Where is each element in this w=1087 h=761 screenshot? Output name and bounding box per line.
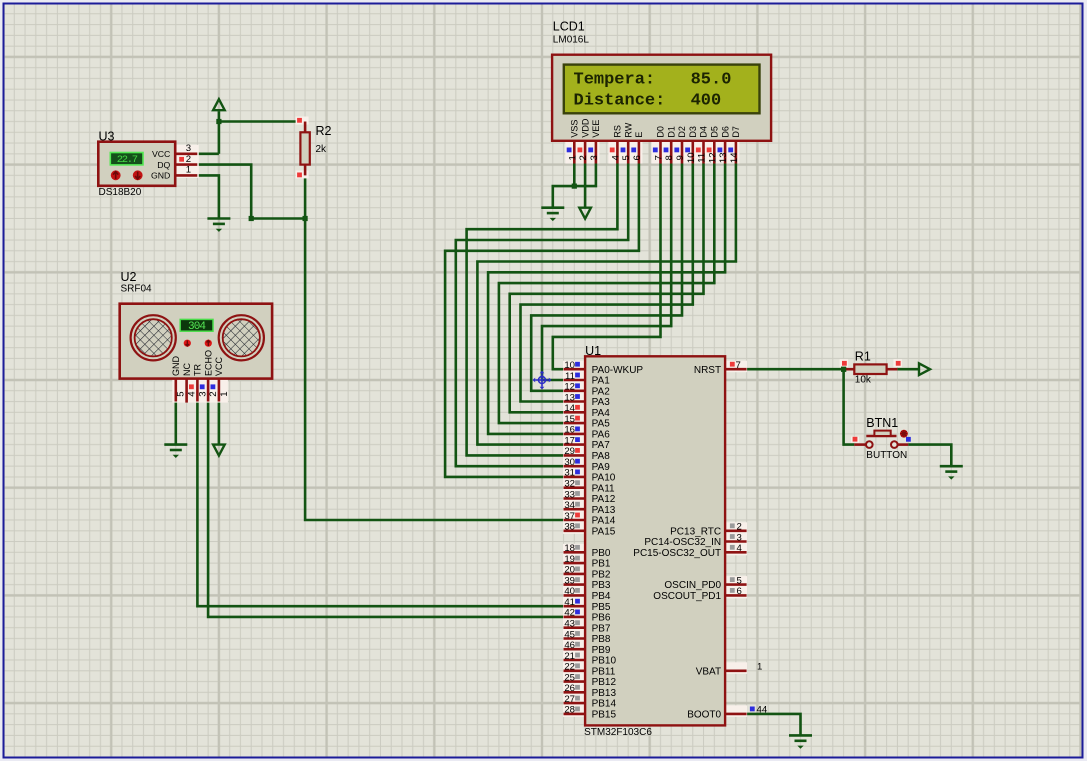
U2 distance readout display xyxy=(180,319,213,331)
junction VSS/VEE xyxy=(572,184,577,189)
wire BOOT0: U1 pin44 to ground xyxy=(747,714,801,736)
svg-text:PA5: PA5 xyxy=(592,419,611,430)
svg-text:U3: U3 xyxy=(99,130,115,144)
svg-text:PB4: PB4 xyxy=(592,591,611,602)
svg-text:1: 1 xyxy=(567,155,578,160)
svg-text:32: 32 xyxy=(564,479,575,490)
svg-text:8: 8 xyxy=(664,155,675,160)
U2 pin state squares xyxy=(189,384,194,389)
U2 pin names xyxy=(171,350,224,376)
svg-text:7: 7 xyxy=(654,155,665,160)
svg-text:10: 10 xyxy=(686,152,697,163)
svg-text:3: 3 xyxy=(737,532,742,543)
wire DQ node -> U1 PA14 xyxy=(305,219,563,521)
svg-text:SRF04: SRF04 xyxy=(121,284,153,295)
svg-text:1: 1 xyxy=(757,662,762,673)
ground near BTN1 xyxy=(940,466,963,479)
wire power rail down to U3 VCC xyxy=(218,111,221,154)
U1 pin numbers xyxy=(564,360,768,716)
svg-text:Distance:: Distance: xyxy=(574,92,666,111)
junction VCC rail xyxy=(216,119,221,124)
svg-text:13: 13 xyxy=(564,392,575,403)
svg-text:PB14: PB14 xyxy=(592,699,617,710)
wire VCC rail to R2 top xyxy=(219,120,305,123)
wire R2 bottom to DQ node xyxy=(304,175,307,218)
svg-text:42: 42 xyxy=(564,608,575,619)
wire RW: LCD1 pin5 -> U1 PA9 xyxy=(456,164,628,467)
svg-text:PB1: PB1 xyxy=(592,559,611,570)
svg-text:BUTTON: BUTTON xyxy=(866,450,907,461)
svg-text:PB2: PB2 xyxy=(592,570,611,581)
wire D1: LCD1 pin8 -> U1 PA1 xyxy=(542,164,671,381)
svg-text:41: 41 xyxy=(564,597,575,608)
svg-text:PA6: PA6 xyxy=(592,430,611,441)
svg-text:5: 5 xyxy=(621,155,632,160)
wire D5: LCD1 pin12 -> U1 PA5 xyxy=(499,164,714,424)
ground near U3 xyxy=(207,219,230,232)
svg-text:11: 11 xyxy=(565,371,575,382)
svg-text:11: 11 xyxy=(697,153,708,163)
svg-text:304: 304 xyxy=(188,321,206,333)
wire D4: LCD1 pin11 -> U1 PA4 xyxy=(510,164,704,413)
svg-text:PA13: PA13 xyxy=(592,505,616,516)
svg-text:GND: GND xyxy=(171,356,181,377)
svg-text:PB5: PB5 xyxy=(592,602,611,613)
svg-text:PA10: PA10 xyxy=(592,473,616,484)
U3 pin names xyxy=(151,149,171,181)
temperature sensor U3 DS18B20 xyxy=(98,130,199,198)
power VDD down-arrow xyxy=(579,208,591,219)
svg-text:OSCIN_PD0: OSCIN_PD0 xyxy=(664,580,721,591)
LCD1 pin numbers xyxy=(567,152,740,163)
svg-text:16: 16 xyxy=(564,425,575,436)
U3 pin state square (DQ) xyxy=(179,157,184,162)
svg-text:PA3: PA3 xyxy=(592,397,611,408)
wire VSS: LCD1 pin1 down xyxy=(573,164,576,187)
wire D7: LCD1 pin14 -> U1 PA7 xyxy=(477,164,736,445)
svg-text:28: 28 xyxy=(564,705,575,716)
svg-text:44: 44 xyxy=(757,705,768,716)
svg-text:31: 31 xyxy=(564,468,575,479)
svg-text:PB8: PB8 xyxy=(592,634,611,645)
power VCC down-arrow near U2 xyxy=(213,445,225,456)
LCD1 screen text xyxy=(574,70,732,110)
BTN1 cap xyxy=(874,431,890,436)
svg-text:26: 26 xyxy=(564,683,575,694)
svg-text:R1: R1 xyxy=(855,350,871,364)
svg-text:PA4: PA4 xyxy=(592,408,611,419)
svg-text:PA9: PA9 xyxy=(592,462,611,473)
BTN1 bar xyxy=(866,435,896,437)
svg-text:D2: D2 xyxy=(677,126,687,138)
svg-text:9: 9 xyxy=(675,155,686,160)
svg-text:VEE: VEE xyxy=(591,120,601,138)
microcontroller U1 STM32F103C6 xyxy=(563,344,768,738)
svg-text:PB3: PB3 xyxy=(592,580,611,591)
wire D3: LCD1 pin10 -> U1 PA3 xyxy=(521,164,693,402)
wire DQ: U3 pin2 to R2 bottom node xyxy=(197,165,305,219)
wire VSS to ground xyxy=(553,186,575,208)
U2 small indicators xyxy=(184,340,191,347)
svg-text:PB9: PB9 xyxy=(592,645,611,656)
ground near BOOT0 xyxy=(789,735,812,748)
svg-text:DS18B20: DS18B20 xyxy=(99,187,142,198)
svg-text:10: 10 xyxy=(564,360,575,371)
svg-text:GND: GND xyxy=(151,171,170,181)
svg-text:D0: D0 xyxy=(656,126,666,138)
svg-text:20: 20 xyxy=(564,565,575,576)
svg-text:34: 34 xyxy=(564,500,575,511)
svg-text:BTN1: BTN1 xyxy=(866,416,898,430)
wire RS: LCD1 pin4 -> U1 PA8 xyxy=(467,164,618,456)
svg-text:4: 4 xyxy=(187,391,198,397)
svg-text:D7: D7 xyxy=(731,126,741,138)
svg-text:PB0: PB0 xyxy=(592,548,611,559)
LCD1 pin state squares xyxy=(567,148,572,153)
svg-text:7: 7 xyxy=(736,360,741,371)
svg-text:BOOT0: BOOT0 xyxy=(687,710,721,721)
svg-text:PB10: PB10 xyxy=(592,656,617,667)
svg-text:14: 14 xyxy=(564,403,575,414)
svg-text:PA1: PA1 xyxy=(592,376,611,387)
wire TR: U2 pin3 -> U1 PB5 xyxy=(197,402,563,607)
wire GND: U3 pin1 to ground xyxy=(197,175,219,218)
svg-text:21: 21 xyxy=(564,651,575,662)
svg-text:PB12: PB12 xyxy=(592,677,617,688)
svg-text:PA8: PA8 xyxy=(592,451,611,462)
svg-text:PA7: PA7 xyxy=(592,440,611,451)
LCD1 screen xyxy=(564,65,760,114)
wire junction down to BTN1 xyxy=(844,369,855,444)
resistor R2 xyxy=(296,117,332,179)
svg-text:D1: D1 xyxy=(666,126,676,138)
svg-text:6: 6 xyxy=(737,586,742,597)
svg-text:5: 5 xyxy=(737,575,742,586)
svg-text:6: 6 xyxy=(632,155,643,160)
svg-text:2: 2 xyxy=(578,155,589,160)
svg-text:VBAT: VBAT xyxy=(696,666,721,677)
svg-text:12: 12 xyxy=(564,382,575,393)
svg-text:30: 30 xyxy=(564,457,575,468)
svg-text:VSS: VSS xyxy=(570,120,580,138)
U3 pin numbers xyxy=(186,143,191,176)
svg-text:18: 18 xyxy=(564,543,575,554)
svg-text:PC14-OSC32_IN: PC14-OSC32_IN xyxy=(644,537,721,548)
svg-text:TR: TR xyxy=(193,364,203,376)
svg-text:3: 3 xyxy=(589,155,600,160)
svg-text:STM32F103C6: STM32F103C6 xyxy=(584,727,652,738)
power up-arrow (VCC rail) xyxy=(213,99,225,110)
svg-text:PB7: PB7 xyxy=(592,623,611,634)
svg-text:2: 2 xyxy=(737,522,742,533)
svg-text:PB11: PB11 xyxy=(592,666,616,677)
svg-text:PC13_RTC: PC13_RTC xyxy=(670,526,721,537)
svg-text:NC: NC xyxy=(182,363,192,376)
svg-text:2k: 2k xyxy=(316,144,328,155)
wire VCC: U2 pin1 to power xyxy=(218,402,221,445)
svg-text:Tempera:: Tempera: xyxy=(574,70,656,89)
svg-text:VDD: VDD xyxy=(580,118,590,138)
wire D6: LCD1 pin13 -> U1 PA6 xyxy=(488,164,725,434)
svg-text:2: 2 xyxy=(186,154,191,165)
svg-text:U2: U2 xyxy=(121,270,137,284)
svg-text:22.7: 22.7 xyxy=(117,154,138,166)
wire VCC: U3 pin3 xyxy=(197,153,219,156)
svg-text:33: 33 xyxy=(564,489,575,500)
svg-text:NRST: NRST xyxy=(694,365,721,376)
svg-text:25: 25 xyxy=(564,672,575,683)
BTN1 actuator xyxy=(900,430,908,438)
origin crosshair marker xyxy=(533,371,552,390)
svg-text:1: 1 xyxy=(219,391,230,396)
svg-text:D3: D3 xyxy=(688,126,698,138)
junction DQ/R2 xyxy=(303,216,308,221)
LCD display LCD1 LM016L xyxy=(552,20,771,164)
wire BTN1 to ground xyxy=(908,445,951,467)
svg-text:LM016L: LM016L xyxy=(553,34,590,45)
wire D0: LCD1 pin7 -> U1 PA0 xyxy=(553,164,661,370)
svg-text:13: 13 xyxy=(718,152,729,163)
resistor R1 xyxy=(840,350,902,386)
svg-text:D5: D5 xyxy=(710,126,720,138)
svg-text:VCC: VCC xyxy=(214,356,224,376)
svg-text:38: 38 xyxy=(564,522,575,533)
svg-text:E: E xyxy=(634,132,644,138)
svg-text:400: 400 xyxy=(691,92,722,111)
R1 terminal state squares xyxy=(842,361,847,366)
wire E: LCD1 pin6 -> U1 PA10 xyxy=(445,164,639,477)
svg-text:10k: 10k xyxy=(855,374,872,385)
svg-text:15: 15 xyxy=(564,414,575,425)
svg-text:PB15: PB15 xyxy=(592,710,617,721)
svg-text:1: 1 xyxy=(186,165,191,176)
wire GND: U2 pin5 to ground xyxy=(175,402,178,445)
ground near LCD1 xyxy=(541,208,564,221)
U3 temperature readout display xyxy=(110,153,143,165)
svg-text:43: 43 xyxy=(564,619,575,630)
svg-text:14: 14 xyxy=(729,152,740,163)
U1 pin state squares xyxy=(575,362,580,367)
svg-text:RS: RS xyxy=(613,125,623,138)
power right-arrow after R1 xyxy=(919,363,930,375)
svg-text:39: 39 xyxy=(564,575,575,586)
ultrasonic sensor U2 SRF04 xyxy=(120,270,272,403)
svg-text:29: 29 xyxy=(564,446,575,457)
svg-text:PA11: PA11 xyxy=(592,483,615,494)
R2 terminal state squares xyxy=(297,118,302,123)
svg-text:PA14: PA14 xyxy=(592,516,616,527)
svg-text:PB6: PB6 xyxy=(592,613,611,624)
wire VEE: LCD1 pin3 to VSS net xyxy=(574,164,596,187)
svg-text:37: 37 xyxy=(564,511,575,522)
BTN1 state squares xyxy=(853,437,858,442)
svg-text:PC15-OSC32_OUT: PC15-OSC32_OUT xyxy=(633,548,721,559)
svg-text:PB13: PB13 xyxy=(592,688,617,699)
U3 adjust buttons xyxy=(111,170,121,180)
svg-text:19: 19 xyxy=(564,554,575,565)
svg-text:2: 2 xyxy=(208,391,219,396)
svg-text:VCC: VCC xyxy=(152,149,170,159)
svg-text:LCD1: LCD1 xyxy=(553,20,585,34)
svg-text:3: 3 xyxy=(186,143,191,154)
svg-text:85.0: 85.0 xyxy=(691,70,732,89)
LCD1 pin names xyxy=(570,118,742,138)
svg-text:40: 40 xyxy=(564,586,575,597)
svg-text:PA12: PA12 xyxy=(592,494,616,505)
svg-text:4: 4 xyxy=(610,154,621,160)
wire NRST: U1 pin7 to R1 xyxy=(747,368,844,371)
svg-text:DQ: DQ xyxy=(157,160,170,170)
junction NRST/R1/BTN1 (top layer) xyxy=(841,367,846,372)
svg-text:46: 46 xyxy=(564,640,575,651)
svg-text:OSCOUT_PD1: OSCOUT_PD1 xyxy=(653,591,721,602)
ground near U2 xyxy=(164,445,187,458)
svg-text:PA0-WKUP: PA0-WKUP xyxy=(592,365,644,376)
svg-text:D4: D4 xyxy=(699,126,709,138)
svg-text:12: 12 xyxy=(707,152,718,163)
push button BTN1 xyxy=(851,416,911,461)
wire R1 right to power arrow xyxy=(897,368,919,371)
svg-text:R2: R2 xyxy=(316,124,332,138)
wire D2: LCD1 pin9 -> U1 PA2 xyxy=(531,164,682,391)
svg-text:PA15: PA15 xyxy=(592,526,616,537)
svg-text:45: 45 xyxy=(564,629,575,640)
wire VDD: LCD1 pin2 down to power xyxy=(584,164,587,208)
svg-text:U1: U1 xyxy=(585,344,601,358)
junction DQ corner xyxy=(249,216,254,221)
U1 pin names xyxy=(592,365,722,721)
U2 pin numbers xyxy=(176,391,230,397)
svg-text:5: 5 xyxy=(176,391,187,396)
svg-text:RW: RW xyxy=(623,122,633,137)
svg-text:17: 17 xyxy=(564,435,575,446)
svg-text:27: 27 xyxy=(564,694,575,705)
junction NRST/R1/BTN1 xyxy=(841,367,846,372)
svg-text:4: 4 xyxy=(737,543,743,554)
wire ECHO: U2 pin2 -> U1 PB6 xyxy=(208,402,563,617)
svg-text:3: 3 xyxy=(197,391,208,396)
svg-text:PA2: PA2 xyxy=(592,386,611,397)
svg-text:ECHO: ECHO xyxy=(203,350,213,376)
svg-text:D6: D6 xyxy=(720,126,730,138)
svg-text:22: 22 xyxy=(564,662,575,673)
